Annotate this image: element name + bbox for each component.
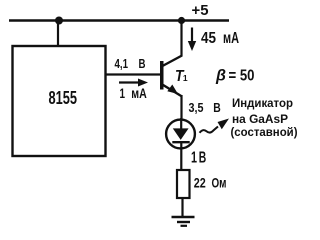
svg-text:мА: мА bbox=[131, 85, 147, 101]
ground symbol bbox=[172, 217, 195, 226]
wire: emitter down to LED bbox=[180, 95, 182, 120]
transistor T1: base bar bbox=[160, 61, 164, 90]
label: T1 bbox=[175, 68, 188, 85]
transistor T1: collector lead bbox=[162, 56, 183, 67]
svg-text:45: 45 bbox=[201, 30, 216, 47]
current arrow: 45 mA flowing down bbox=[188, 28, 196, 52]
label: 22 Ом bbox=[194, 175, 227, 191]
label: β = 50 bbox=[215, 68, 255, 85]
transistor T1: emitter lead with arrow bbox=[162, 84, 183, 97]
LED indicator: anode triangle bbox=[173, 128, 189, 140]
IC: 8155 box bbox=[13, 46, 106, 156]
label: 4,1 В bbox=[115, 56, 146, 71]
wire: rail down to 8155 box bbox=[57, 21, 59, 47]
wire: +5 top supply rail bbox=[9, 19, 229, 21]
wire: collector up to rail bbox=[180, 20, 182, 57]
svg-text:22: 22 bbox=[194, 175, 206, 191]
wire: LED to resistor bbox=[180, 143, 182, 169]
svg-text:3,5: 3,5 bbox=[189, 100, 204, 115]
svg-text:β: β bbox=[215, 68, 226, 85]
svg-text:мА: мА bbox=[223, 30, 239, 47]
svg-text:4,1: 4,1 bbox=[115, 56, 129, 71]
LED indicator: cathode bar bbox=[172, 141, 189, 143]
node: junction dot at collector branch bbox=[178, 17, 185, 24]
wire: through LED (top stub) bbox=[180, 118, 182, 129]
wire: resistor to ground bbox=[181, 199, 183, 217]
wire: 8155 output to transistor base bbox=[105, 73, 160, 75]
svg-text:В: В bbox=[213, 100, 221, 115]
svg-text:8155: 8155 bbox=[49, 87, 78, 108]
svg-text:В: В bbox=[199, 150, 207, 167]
svg-text:1: 1 bbox=[183, 73, 188, 83]
label: 45 мА bbox=[201, 30, 239, 47]
LED indicator: circle bbox=[166, 120, 195, 149]
resistor R 22 Ohm bbox=[177, 170, 190, 198]
svg-text:Индикатор: Индикатор bbox=[232, 98, 293, 110]
current arrow: 1 mA into base bbox=[119, 79, 148, 87]
svg-text:Ом: Ом bbox=[212, 175, 227, 191]
svg-text:В: В bbox=[139, 56, 146, 71]
label: 1 В bbox=[191, 150, 206, 167]
svg-text:+5: +5 bbox=[192, 2, 209, 19]
svg-text:(составной): (составной) bbox=[231, 127, 298, 139]
label: 1 мА bbox=[120, 85, 147, 101]
svg-text:на GaAsP: на GaAsP bbox=[232, 114, 288, 126]
label: 3,5 В bbox=[189, 100, 221, 115]
callout squiggly arrow to indicator label bbox=[200, 119, 230, 133]
svg-text:1: 1 bbox=[191, 150, 197, 167]
node: junction dot above 8155 bbox=[55, 17, 63, 25]
svg-text:= 50: = 50 bbox=[229, 68, 255, 85]
svg-text:1: 1 bbox=[120, 85, 126, 101]
